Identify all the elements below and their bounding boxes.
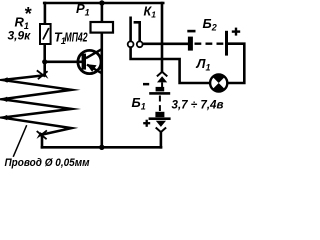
svg-text:МП42: МП42 xyxy=(65,31,88,45)
resistor R1 xyxy=(40,24,51,44)
coil left vertex barb 2 xyxy=(1,97,8,102)
lamp L1 xyxy=(210,74,227,91)
wire B1 plus drop xyxy=(160,132,163,147)
node emitter rail junction xyxy=(99,145,104,150)
svg-text:3,7 ÷ 7,4в: 3,7 ÷ 7,4в xyxy=(172,98,224,112)
label B1 plus xyxy=(143,120,150,127)
wire R1 bottom lead xyxy=(43,44,46,74)
wire base xyxy=(45,60,82,63)
connection mark top coil end xyxy=(37,70,49,79)
svg-text:3,9к: 3,9к xyxy=(8,29,32,43)
coil left vertex barb 3 xyxy=(1,115,8,120)
svg-text:Провод Ø 0,05мм: Провод Ø 0,05мм xyxy=(5,157,90,169)
wire top rail xyxy=(44,2,163,5)
coil sensor loop (thin wire) xyxy=(2,75,72,134)
wire collector-emitter rail xyxy=(101,33,104,148)
connector arrow B1 plus xyxy=(156,121,166,132)
node base junction xyxy=(42,59,47,64)
contact K1 terminal right xyxy=(137,41,143,47)
wire K1 lever xyxy=(129,18,132,41)
wire R1 top lead xyxy=(44,3,47,24)
coil left vertex barb 1 xyxy=(1,77,8,82)
connection mark bottom coil end xyxy=(37,130,47,139)
battery B2 xyxy=(188,31,228,56)
wire B2 plus to lamp xyxy=(227,44,244,83)
wire lamp feed left xyxy=(131,47,211,83)
transistor Q1 T1 MP42 xyxy=(78,49,102,73)
wire coil bottom riser xyxy=(41,134,44,147)
connector arrow B1 minus xyxy=(157,72,167,87)
wire K1 fixed hook xyxy=(135,22,140,41)
wire B1 riser xyxy=(161,3,164,72)
relay coil P1 xyxy=(91,22,114,33)
contact K1 terminal left xyxy=(128,41,134,47)
wire bottom rail xyxy=(42,146,161,149)
battery B1 xyxy=(149,87,171,120)
wire K1 to B2 minus xyxy=(143,42,188,45)
label B2 plus xyxy=(232,28,240,36)
wire relay drop xyxy=(101,3,104,22)
label B1 minus xyxy=(143,83,149,86)
label B2 minus xyxy=(187,30,195,33)
label pointer line xyxy=(13,125,27,157)
node relay top junction xyxy=(99,0,104,5)
svg-text:*: * xyxy=(24,4,32,24)
